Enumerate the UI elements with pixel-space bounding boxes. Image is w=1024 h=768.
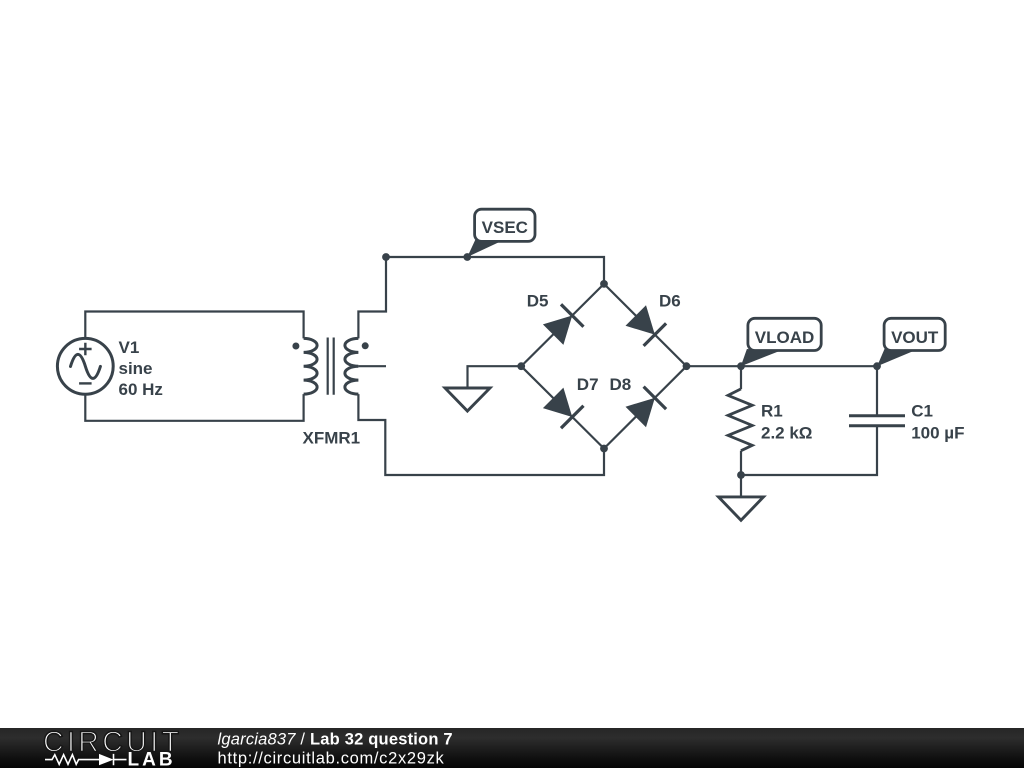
svg-text:lgarcia837 / Lab 32 question 7: lgarcia837 / Lab 32 question 7 — [218, 730, 453, 748]
node dot VLOAD tap — [737, 362, 745, 370]
wire R1 bottom lead — [740, 451, 742, 475]
diode D5 — [542, 304, 584, 346]
svg-text:VLOAD: VLOAD — [755, 328, 815, 347]
flag VSEC — [467, 209, 535, 257]
node dot bridge top — [600, 280, 608, 288]
svg-text:VSEC: VSEC — [482, 218, 528, 237]
transformer XFMR1 core lines — [328, 338, 334, 395]
voltage source V1 sine wave — [71, 354, 101, 378]
svg-text:D8: D8 — [610, 375, 632, 394]
wire bottom bus R1 to C1 — [741, 427, 877, 476]
svg-text:2.2 kΩ: 2.2 kΩ — [761, 424, 812, 443]
svg-text:http://circuitlab.com/c2x29zk: http://circuitlab.com/c2x29zk — [218, 749, 445, 767]
svg-text:60 Hz: 60 Hz — [119, 380, 163, 399]
flag VLOAD — [741, 318, 821, 366]
node dot VSEC tap — [463, 253, 471, 261]
node dot bridge bottom — [600, 445, 608, 453]
svg-text:LAB: LAB — [128, 750, 176, 768]
flag VOUT — [877, 318, 945, 366]
diode D7 — [542, 387, 584, 429]
node dot VOUT tap — [873, 362, 881, 370]
node dot secondary top corner — [382, 253, 390, 261]
svg-text:VOUT: VOUT — [891, 328, 939, 347]
transformer XFMR1 secondary phase dot — [362, 342, 369, 349]
svg-text:D6: D6 — [659, 292, 681, 311]
transformer XFMR1 primary phase dot — [292, 343, 299, 350]
ground below R1 — [719, 497, 764, 520]
svg-text:R1: R1 — [761, 402, 783, 421]
svg-text:C1: C1 — [911, 402, 933, 421]
wire bridge left node to ground — [468, 366, 522, 388]
svg-text:sine: sine — [119, 359, 153, 378]
svg-text:D5: D5 — [527, 292, 549, 311]
svg-text:100 µF: 100 µF — [911, 424, 964, 443]
wire secondary bottom to bridge — [358, 394, 604, 475]
wire primary top loop — [85, 312, 303, 339]
transformer XFMR1 primary coil — [304, 338, 318, 394]
wire ground stem below R1 — [740, 475, 742, 497]
resistor R1 zigzag — [728, 389, 752, 451]
voltage source V1 minus sign — [79, 382, 92, 384]
footer logo resistor-diode squiggle — [45, 755, 99, 765]
wire primary bottom loop — [85, 394, 303, 421]
wire bridge right node to VOUT — [687, 365, 878, 367]
diode D6 — [625, 304, 667, 346]
voltage source V1 plus sign — [79, 343, 92, 356]
wire secondary center tap stub — [358, 365, 386, 367]
svg-text:XFMR1: XFMR1 — [303, 429, 361, 448]
footer bar — [0, 728, 1024, 768]
transformer XFMR1 secondary coil — [345, 338, 359, 394]
wire secondary top to bridge — [358, 257, 604, 338]
voltage source V1 circle — [57, 338, 113, 394]
diode D8 — [625, 387, 667, 429]
svg-text:D7: D7 — [577, 375, 599, 394]
svg-text:V1: V1 — [119, 338, 140, 357]
wire bridge diamond — [521, 284, 686, 449]
ground left of bridge — [445, 388, 490, 411]
node dot bridge right — [683, 362, 691, 370]
capacitor C1 plates — [849, 416, 905, 426]
node dot R1 bottom — [737, 471, 745, 479]
wire R1 top lead — [740, 366, 742, 389]
node dot bridge left — [517, 362, 525, 370]
wire C1 top lead — [876, 366, 878, 415]
